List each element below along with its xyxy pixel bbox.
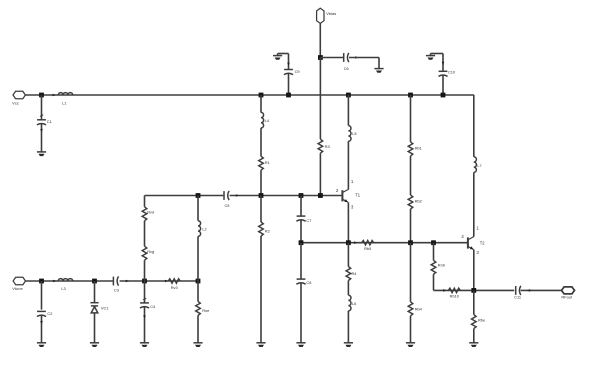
wire C4 stem: [144, 281, 146, 303]
svg-text:Vcc: Vcc: [12, 100, 19, 105]
wire emitter node to Rbe: [473, 290, 475, 314]
resistor Rvd: [142, 207, 147, 221]
ground below C1: [37, 152, 46, 156]
wire mid rail y242 to T2 base: [301, 242, 468, 244]
varactor VC1: [90, 302, 98, 304]
junction L5 bus node: [346, 93, 351, 98]
junction L2 upper node: [196, 193, 201, 198]
junction VC1 node: [92, 279, 97, 284]
junction C10 bus node: [441, 93, 446, 98]
inductor L3: [58, 279, 72, 281]
wire C8 stem: [300, 243, 302, 279]
svg-text:C9: C9: [295, 69, 300, 74]
wire mid rail to Rb4: [410, 243, 412, 302]
svg-text:RFout: RFout: [561, 294, 573, 299]
svg-text:Rb5: Rb5: [364, 246, 371, 251]
wire C9 branch top: [278, 53, 289, 55]
arrow tune rail: [165, 280, 168, 283]
capacitor C4: [140, 303, 149, 308]
port Vbias: [317, 8, 324, 23]
wire R1 to base rail: [260, 170, 262, 195]
junction T1 emitter node: [346, 240, 351, 245]
wire R2 to ground: [260, 236, 262, 343]
svg-text:Rbe: Rbe: [478, 318, 485, 323]
arrow L3 input: [53, 280, 56, 283]
resistor Rv3: [168, 279, 180, 283]
junction L2 lower node: [196, 279, 201, 284]
wire T2 emitter drop: [473, 250, 475, 291]
port RFout: [562, 287, 575, 294]
wire base rail y195: [145, 195, 224, 197]
capacitor C7: [296, 216, 305, 221]
svg-text:Rvg: Rvg: [147, 249, 154, 254]
svg-text:L2: L2: [202, 226, 206, 231]
wire Rvd to Rvg: [144, 221, 146, 246]
resistor R3: [318, 139, 323, 153]
wire Rb1 to Rb2: [410, 156, 412, 195]
wire C4 to ground: [144, 307, 146, 343]
capacitor C5: [224, 191, 229, 200]
svg-text:L5: L5: [352, 131, 356, 136]
wire Vbias stem: [319, 23, 321, 57]
junction mid rail x410: [408, 240, 413, 245]
svg-text:T2: T2: [480, 241, 486, 246]
junction Rnb node: [431, 240, 436, 245]
arrow C11 left: [527, 289, 530, 292]
wire base rail corner down: [144, 196, 146, 207]
svg-text:Rb4: Rb4: [415, 307, 423, 312]
resistor Rb4: [408, 302, 413, 316]
svg-text:Rb10: Rb10: [450, 294, 460, 299]
port Vtune: [13, 277, 25, 284]
wire Rbe to ground: [473, 329, 475, 343]
svg-text:C1: C1: [47, 119, 53, 124]
ground C10 branch: [426, 56, 435, 60]
svg-text:VC1: VC1: [101, 305, 109, 310]
svg-text:T1: T1: [355, 193, 361, 198]
junction Vcc node: [39, 93, 44, 98]
svg-text:L1: L1: [62, 101, 67, 106]
resistor R4: [346, 267, 351, 281]
wire Rne to ground: [197, 315, 199, 342]
svg-text:C4: C4: [150, 304, 156, 309]
ground below C8: [296, 343, 305, 347]
svg-text:C11: C11: [514, 295, 521, 300]
wire bus to L4: [260, 95, 262, 113]
svg-text:C8: C8: [306, 280, 311, 285]
junction C2 node: [39, 279, 44, 284]
wire L6 to ground: [347, 311, 349, 343]
svg-text:Vtune: Vtune: [12, 286, 23, 291]
capacitor C8: [296, 279, 305, 284]
wire Rvg to tune rail: [144, 260, 146, 281]
wire C8 to ground: [300, 283, 302, 343]
wire Vbias vertical: [319, 58, 321, 140]
ground C9 branch: [273, 56, 282, 60]
tick C4: [143, 298, 146, 300]
svg-text:R2: R2: [265, 229, 270, 234]
wire tune rail y281: [25, 280, 113, 282]
wire top supply bus: [25, 94, 474, 96]
inductor L4: [261, 112, 264, 128]
inductor L6: [348, 295, 351, 311]
wire C1 stem upper: [41, 95, 43, 120]
arrow C4 lower: [143, 315, 146, 318]
wire C7 to mid rail: [300, 220, 302, 243]
svg-text:C6: C6: [344, 66, 349, 71]
capacitor C1: [37, 120, 46, 125]
inductor L1: [58, 93, 72, 95]
wire C7 stem: [300, 196, 302, 217]
junction R3 base node: [318, 193, 323, 198]
capacitor C11: [516, 286, 521, 295]
wire base rail to R2: [260, 196, 262, 223]
svg-text:R3: R3: [325, 144, 331, 149]
wire C6 to ground corner: [349, 57, 379, 59]
ground below C2: [37, 343, 46, 347]
wire L5 to T1 collector: [347, 141, 349, 189]
svg-text:R1: R1: [265, 160, 270, 165]
arrow C1 lower: [40, 129, 43, 132]
resistor R2: [259, 222, 264, 236]
wire VC1 stem: [94, 281, 96, 302]
wire C10 stem upper: [442, 54, 444, 72]
junction Rb1 bus node: [408, 93, 413, 98]
wire C1 stem lower: [41, 124, 43, 152]
resistor Rvg: [142, 246, 147, 260]
resistor Rb5: [362, 241, 374, 245]
junction T2 emitter node: [471, 288, 476, 293]
arrow C2 lower: [40, 321, 43, 324]
wire Vbias node to C6: [320, 57, 343, 59]
svg-text:Vbias: Vbias: [326, 11, 336, 16]
junction C7 base node: [299, 193, 304, 198]
svg-text:R4: R4: [352, 271, 358, 276]
arrow L1 input: [53, 94, 56, 97]
tick C1: [40, 115, 43, 117]
wire Rb2 to mid rail: [410, 209, 412, 243]
transistor T1: [341, 190, 343, 201]
capacitor C6: [344, 53, 349, 62]
inductor L5: [348, 126, 351, 142]
ground below VC1: [90, 343, 99, 347]
svg-text:Rb2: Rb2: [415, 198, 422, 203]
resistor R1: [259, 156, 264, 170]
arrow C9: [287, 63, 290, 66]
wire tune rail right of C3: [120, 280, 198, 282]
wire bus to Rb1: [410, 95, 412, 142]
svg-text:Rb1: Rb1: [415, 145, 422, 150]
ground below C4: [140, 343, 149, 347]
wire Rnb to emitter rail: [433, 274, 435, 290]
wire VC1 to ground: [94, 313, 96, 343]
wire C9 branch stem: [288, 54, 290, 70]
svg-text:L6: L6: [352, 301, 356, 306]
capacitor C2: [37, 311, 46, 316]
svg-text:L3: L3: [61, 286, 65, 291]
svg-text:Rv3: Rv3: [171, 285, 178, 290]
wire bus to L5: [347, 95, 349, 126]
port Vcc: [13, 91, 25, 98]
wire Rb4 to ground: [410, 316, 412, 343]
wire L2 node to Rne: [197, 281, 199, 301]
resistor Rne: [196, 301, 201, 315]
wire Rnb stem: [433, 243, 435, 261]
wire T1 emitter node to R4: [347, 243, 349, 267]
junction Vbias node: [318, 55, 323, 60]
wire C10 branch top: [431, 53, 444, 55]
svg-text:Rvd: Rvd: [147, 209, 154, 214]
wire L2 stem upper: [197, 196, 199, 221]
wire C2 to ground: [41, 315, 43, 342]
wire R4 to L6: [347, 281, 349, 296]
wire L4 to R1: [260, 128, 262, 156]
svg-text:C2: C2: [47, 311, 52, 316]
arrow emitter rail: [443, 289, 446, 292]
capacitor C9: [284, 70, 293, 75]
resistor Rnb: [431, 260, 436, 274]
resistor Rb10: [448, 288, 460, 292]
resistor Rbe: [472, 315, 477, 329]
ground C6 branch: [374, 69, 383, 73]
svg-text:Rnb: Rnb: [438, 262, 445, 267]
wire L7 to T2 collector: [473, 172, 475, 236]
junction mid rail x301: [299, 240, 304, 245]
capacitor C3: [113, 276, 118, 285]
svg-text:L7: L7: [477, 163, 481, 168]
wire emitter rail y290: [434, 289, 515, 291]
resistor Rb2: [408, 195, 413, 209]
inductor L2: [198, 221, 201, 237]
wire R3 to base rail: [319, 153, 321, 195]
svg-text:C7: C7: [306, 218, 311, 223]
junction C4 node: [142, 279, 147, 284]
arrow C5 right: [236, 194, 239, 197]
junction C9 bus node: [286, 93, 291, 98]
ground below R2: [256, 343, 265, 347]
arrow after C3: [126, 280, 129, 283]
wire C9 to bus: [288, 74, 290, 96]
wire base rail y195 right of C5: [230, 195, 342, 197]
ground below Rb4: [406, 343, 415, 347]
wire C10 to bus: [442, 75, 444, 95]
transistor T2: [467, 237, 469, 248]
capacitor C10: [438, 71, 447, 76]
wire T1 emitter drop: [347, 202, 349, 242]
svg-text:C5: C5: [225, 203, 230, 208]
svg-text:C10: C10: [448, 70, 456, 75]
wire output rail right of C11: [521, 289, 562, 291]
ground below Rbe: [469, 343, 478, 347]
ground below L6: [344, 343, 353, 347]
wire bus right drop to L7: [473, 95, 475, 157]
svg-text:C3: C3: [114, 288, 119, 293]
inductor L7: [474, 157, 477, 173]
svg-text:Rne: Rne: [202, 308, 209, 313]
arrow mid rail: [354, 241, 357, 244]
junction base rail x261: [259, 193, 264, 198]
arrow C10: [442, 62, 445, 65]
junction L4 bus node: [259, 93, 264, 98]
resistor Rb1: [408, 142, 413, 156]
ground below Rne: [193, 343, 202, 347]
arrow C6 right: [355, 56, 358, 59]
wire C2 stem: [41, 281, 43, 310]
wire L2 stem lower: [197, 236, 199, 281]
